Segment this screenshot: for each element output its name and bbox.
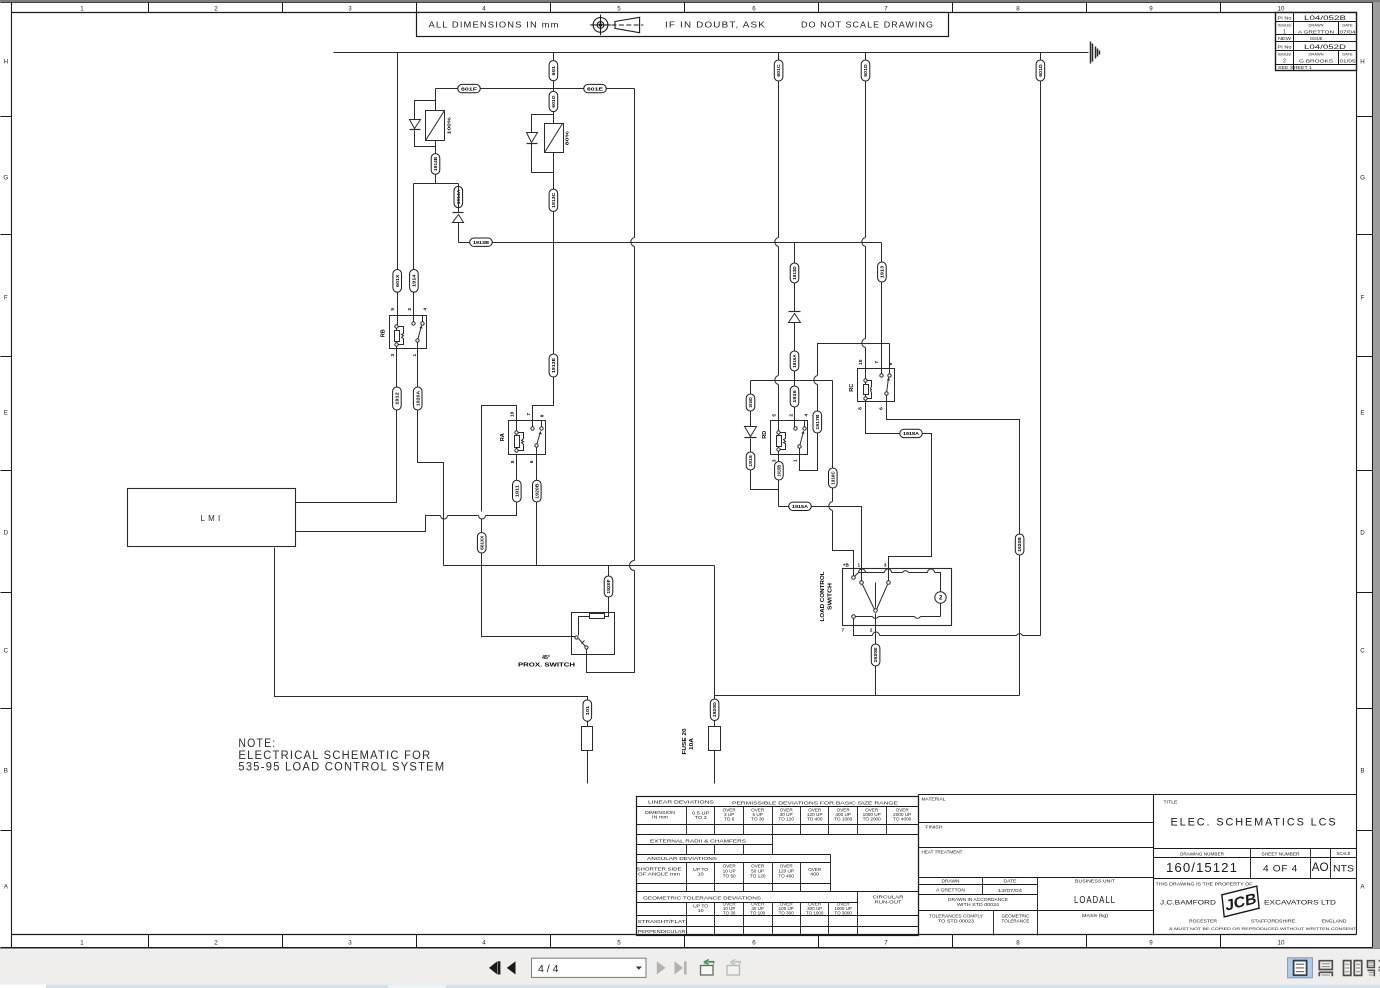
svg-text:400: 400 [810, 872, 820, 877]
wire hop: pin7 line over 1920E [873, 632, 880, 636]
wire hop: 1916C over 1915A [829, 502, 833, 511]
wire: 1920 ground bus (left) [444, 565, 715, 567]
svg-text:2: 2 [870, 627, 873, 632]
svg-text:TO 1000: TO 1000 [806, 910, 824, 915]
svg-text:TO 4000: TO 4000 [893, 817, 912, 822]
svg-text:TO 6: TO 6 [724, 817, 735, 822]
svg-text:07/04: 07/04 [1340, 30, 1357, 35]
svg-text:DATE: DATE [1342, 23, 1353, 28]
relay RA changeover contact [541, 421, 543, 429]
svg-text:1912: 1912 [395, 392, 400, 405]
node 1918A [900, 429, 923, 437]
node 601G [549, 91, 558, 111]
svg-text:8: 8 [1016, 5, 1020, 12]
svg-text:1916A: 1916A [792, 354, 797, 368]
svg-text:GEOMETRIC TOLERANCE DEVIATIONS: GEOMETRIC TOLERANCE DEVIATIONS [643, 896, 761, 901]
svg-text:E: E [4, 409, 8, 416]
svg-text:1920B: 1920B [534, 483, 539, 499]
svg-text:9: 9 [888, 362, 894, 365]
node 1913B [470, 238, 493, 246]
svg-text:1913: 1913 [880, 265, 885, 278]
svg-text:D: D [4, 529, 9, 536]
svg-text:& MUST NOT BE COPIED OR REPROD: & MUST NOT BE COPIED OR REPRODUCED WITHO… [1169, 926, 1357, 931]
wire hop: 601E over 1913B [631, 238, 635, 247]
box: load control switch [843, 569, 952, 626]
svg-text:1: 1 [858, 562, 861, 567]
wire hop: pin7 line over 1920B [1017, 634, 1023, 636]
svg-text:H: H [4, 58, 8, 65]
svg-text:G: G [1360, 174, 1365, 181]
svg-text:TO 2000: TO 2000 [863, 817, 882, 822]
fuse F20 [709, 727, 721, 751]
svg-text:535-95 LOAD CONTROL SYSTEM: 535-95 LOAD CONTROL SYSTEM [238, 760, 445, 774]
svg-text:10: 10 [698, 872, 705, 877]
svg-text:5: 5 [390, 308, 396, 311]
svg-text:SEE SHEET 1: SEE SHEET 1 [1278, 65, 1313, 70]
svg-text:3: 3 [390, 354, 396, 357]
node 601D [1036, 60, 1045, 81]
svg-text:7: 7 [884, 940, 888, 947]
svg-text:2: 2 [214, 940, 218, 947]
svg-text:PERPENDICULAR: PERPENDICULAR [638, 929, 686, 934]
svg-text:9: 9 [539, 414, 545, 417]
wire: 1914A branch through diode to 1913B [458, 184, 460, 243]
svg-text:TITLE: TITLE [1164, 799, 1178, 804]
wire hop: 601C over 1916 net [775, 376, 779, 385]
svg-text:TO 120: TO 120 [778, 817, 794, 822]
wire: 1916C branch to load control switch pin +B [833, 381, 854, 578]
wire: 1916 to relay RD pin 2 [794, 381, 796, 429]
node 601F [458, 84, 481, 92]
svg-text:RA: RA [500, 433, 506, 441]
wire hop: 1917B over 1916 net [814, 376, 818, 385]
wire hop: 601D over 1917B link [862, 339, 866, 348]
relay RB coil [396, 327, 398, 345]
svg-text:HEAT TREATMENT: HEAT TREATMENT [922, 849, 963, 854]
svg-text:TO STD 00023: TO STD 00023 [938, 919, 975, 924]
box: 45 deg prox switch [572, 613, 615, 655]
svg-text:4: 4 [803, 414, 809, 417]
svg-text:601XX: 601XX [479, 535, 484, 550]
wire: 1913E from 1913B junction down to relay RA pin 7 [533, 243, 554, 429]
node 1911 [513, 480, 522, 502]
relay RD coil [778, 433, 780, 450]
svg-text:B: B [4, 767, 8, 774]
svg-text:10: 10 [698, 908, 705, 913]
svg-text:2: 2 [407, 308, 413, 311]
svg-text:LOADALL: LOADALL [1074, 895, 1116, 906]
prox switch contacts [579, 617, 590, 636]
svg-text:101: 101 [585, 705, 590, 715]
svg-text:LOAD CONTROL: LOAD CONTROL [820, 571, 826, 622]
wire: power bus 601 (top horizontal) [334, 52, 1089, 54]
svg-text:SWITCH: SWITCH [828, 583, 834, 610]
diode D1 (across 100% coil) [410, 120, 421, 129]
wire: 1920B branch RC pin 6 to 1920 bus [887, 396, 1020, 696]
wire hop: 601C over 1913B [775, 238, 779, 247]
svg-text:601X: 601X [395, 274, 400, 287]
svg-text:4: 4 [422, 308, 428, 311]
svg-text:DRAWING NUMBER: DRAWING NUMBER [1180, 852, 1224, 857]
node 1913D [790, 263, 799, 283]
svg-text:D: D [1360, 529, 1365, 536]
svg-text:1913E: 1913E [551, 358, 556, 373]
svg-text:TOLERANCE: TOLERANCE [1002, 919, 1030, 924]
relay RD body [771, 421, 808, 455]
svg-text:5: 5 [617, 5, 621, 12]
svg-text:PI No: PI No [1278, 44, 1293, 49]
svg-text:G: G [3, 174, 8, 181]
node 1916D [746, 394, 755, 411]
svg-text:7: 7 [842, 627, 845, 632]
svg-text:10A: 10A [689, 738, 695, 750]
svg-text:TO 3000: TO 3000 [834, 910, 852, 915]
svg-text:WITH STD 00024: WITH STD 00024 [957, 902, 1000, 907]
svg-text:TO 300: TO 300 [779, 910, 795, 915]
wire: 1916 net horizontal [751, 380, 833, 382]
svg-text:ALL DIMENSIONS IN mm: ALL DIMENSIONS IN mm [429, 20, 560, 30]
svg-text:10: 10 [858, 359, 864, 365]
svg-text:6: 6 [879, 407, 885, 410]
svg-text:601D: 601D [1038, 64, 1043, 77]
svg-text:DRAWN: DRAWN [942, 879, 960, 884]
svg-text:1914B: 1914B [433, 156, 438, 171]
svg-text:601D: 601D [863, 64, 868, 77]
svg-text:RD: RD [762, 430, 768, 438]
svg-text:1911: 1911 [514, 484, 519, 497]
wire: load control switch pin 7 to 601D [854, 619, 1041, 636]
relay RA coil [516, 433, 518, 451]
node 1915A [789, 502, 812, 510]
node 1913 [878, 262, 887, 282]
wire: 1911 from RA pin 8 to LMI [296, 455, 517, 532]
wire: 601D from bus to relay RC pin 10 [865, 53, 867, 381]
svg-text:MASS (kg): MASS (kg) [1082, 913, 1109, 918]
node 1920B [533, 480, 542, 502]
svg-text:G BROOKS: G BROOKS [1299, 59, 1333, 64]
svg-text:100%: 100% [447, 116, 453, 134]
node 1912 [393, 387, 402, 410]
diode D5 (1916D to 1915) [745, 427, 757, 437]
relay RC body [858, 369, 895, 402]
svg-text:7: 7 [526, 413, 532, 416]
svg-text:7: 7 [874, 361, 880, 364]
wire: 1916D branch with diode to 1915 [751, 381, 779, 490]
svg-text:DRAWN: DRAWN [1309, 23, 1324, 28]
svg-text:1915B: 1915B [777, 464, 782, 477]
node 1920D [710, 699, 719, 721]
svg-text:2: 2 [214, 5, 218, 12]
svg-text:3: 3 [348, 5, 352, 12]
svg-text:DATE: DATE [1342, 52, 1353, 57]
relay RD changeover contact [804, 421, 806, 429]
wire: prox switch bottom contact to 601E [586, 650, 588, 655]
node 1915B [775, 462, 784, 481]
svg-text:9: 9 [1149, 5, 1153, 12]
wire: 1920D drop from bus through fuse 20 [714, 566, 716, 784]
svg-text:DATE: DATE [1004, 879, 1017, 884]
svg-text:SHEET NUMBER: SHEET NUMBER [1262, 852, 1300, 857]
wire: 1913 from 1913B corner down to relay RC pin 7 [881, 243, 883, 376]
svg-text:1918A: 1918A [903, 431, 920, 436]
wire: 601F/601E horizontal [436, 88, 635, 90]
svg-text:TO 400: TO 400 [778, 874, 794, 879]
svg-text:F: F [1361, 294, 1365, 301]
load control switch wire pin3 [888, 569, 890, 583]
svg-text:A GRETTON: A GRETTON [1298, 30, 1334, 35]
diode D3 (across 80% coil) [527, 133, 538, 143]
svg-text:TO 3: TO 3 [695, 815, 708, 820]
relay coil K1 100% (with flyback diode) [415, 89, 436, 184]
svg-text:1920D: 1920D [712, 702, 717, 718]
svg-text:+B: +B [843, 562, 850, 567]
svg-text:ISSUE: ISSUE [1278, 52, 1292, 57]
svg-text:2: 2 [789, 414, 795, 417]
wire: 1913D branch from 1913B through diode to 1916 net [794, 243, 796, 381]
wire: 1920A from RB pin 1 to 1920 bus [418, 343, 444, 566]
svg-text:160/15121: 160/15121 [1166, 861, 1238, 875]
svg-text:2: 2 [1283, 59, 1286, 65]
diode D4 (1913D to 1916A) [789, 311, 801, 313]
relay RA body [509, 421, 546, 455]
svg-text:TO 50: TO 50 [723, 874, 737, 879]
wire: LMI sense line down to fuse 101 [275, 548, 588, 784]
svg-text:1920B: 1920B [1017, 537, 1022, 552]
svg-text:1916C: 1916C [830, 471, 835, 485]
svg-text:6: 6 [752, 940, 756, 947]
relay RC changeover contact [889, 369, 891, 376]
svg-text:1: 1 [80, 940, 84, 947]
fuse F101 [582, 727, 593, 751]
svg-text:TO 30: TO 30 [723, 910, 736, 915]
node 1914B [431, 154, 440, 175]
node 1914 [410, 270, 419, 293]
wire: 1920E from load control switch pin 2 [875, 614, 877, 696]
svg-text:1914: 1914 [412, 274, 417, 287]
node 601D [861, 60, 870, 81]
svg-text:ENGLAND: ENGLAND [1322, 919, 1348, 924]
wire hop: 1911 over prox feed [479, 516, 486, 520]
relay coil K2 80% (with flyback diode) [532, 115, 554, 243]
svg-text:6: 6 [752, 5, 756, 12]
svg-text:AO: AO [1312, 862, 1329, 874]
load control switch selector contacts [863, 583, 888, 610]
svg-text:8: 8 [510, 460, 516, 463]
load control switch contact circles [852, 576, 856, 580]
svg-text:4 / 4: 4 / 4 [538, 963, 559, 975]
svg-text:7: 7 [884, 5, 888, 12]
svg-text:PROX. SWITCH: PROX. SWITCH [518, 662, 575, 668]
wire: 1915B / 1915A from RD pin 3 to load control switch pin 1 [779, 450, 862, 583]
node 1914A [454, 186, 463, 207]
svg-text:4: 4 [482, 5, 486, 12]
wire: 1913B horizontal [459, 242, 882, 244]
lamp 2 inside load control switch [935, 592, 946, 603]
svg-text:6: 6 [529, 460, 535, 463]
svg-text:1915: 1915 [748, 455, 753, 467]
svg-text:PI No: PI No [1278, 15, 1293, 20]
svg-text:IN mm: IN mm [652, 815, 669, 820]
svg-text:8: 8 [858, 407, 864, 410]
svg-text:601: 601 [551, 65, 556, 75]
node 601C [774, 60, 783, 81]
svg-text:NEW: NEW [1278, 36, 1291, 41]
svg-text:1917B: 1917B [815, 414, 820, 430]
svg-text:1: 1 [412, 354, 418, 357]
svg-text:3: 3 [348, 940, 352, 947]
svg-text:3: 3 [884, 562, 887, 567]
node 1916 [790, 386, 799, 407]
svg-text:TO 400: TO 400 [807, 817, 823, 822]
relay RC coil [865, 381, 867, 399]
node 1920E [871, 644, 880, 666]
svg-text:TO 30: TO 30 [751, 817, 765, 822]
svg-text:601C: 601C [776, 64, 781, 77]
svg-text:1916D: 1916D [748, 397, 753, 408]
svg-text:1915A: 1915A [792, 504, 809, 509]
svg-text:EXCAVATORS LTD: EXCAVATORS LTD [1264, 900, 1336, 907]
svg-text:H: H [1360, 58, 1364, 65]
svg-text:1920A: 1920A [415, 390, 420, 406]
wire: 1920 ground bus (right) [715, 695, 1020, 697]
svg-text:10: 10 [1278, 5, 1285, 12]
svg-text:1913C: 1913C [551, 192, 556, 208]
diode D2 (1914A to 1913B) [453, 212, 464, 214]
svg-text:ROCESTER: ROCESTER [1189, 919, 1218, 924]
svg-text:1916: 1916 [792, 390, 797, 403]
svg-text:SCALE: SCALE [1337, 851, 1351, 856]
svg-text:1920F: 1920F [606, 579, 611, 594]
svg-text:THIS DRAWING IS THE PROPERTY O: THIS DRAWING IS THE PROPERTY OF [1156, 882, 1254, 887]
svg-text:1913D: 1913D [792, 266, 797, 280]
node 1916C [829, 468, 838, 488]
svg-text:RC: RC [849, 383, 855, 391]
svg-text:13/07/04: 13/07/04 [998, 888, 1023, 893]
svg-text:EXTERNAL RADII & CHAMFERS: EXTERNAL RADII & CHAMFERS [650, 838, 746, 843]
svg-text:LMI: LMI [201, 514, 224, 523]
svg-text:4: 4 [482, 940, 486, 947]
svg-text:FINISH: FINISH [926, 825, 943, 830]
svg-text:J.C.BAMFORD: J.C.BAMFORD [1160, 900, 1216, 907]
svg-text:TO 1000: TO 1000 [834, 817, 853, 822]
load control switch wire pin1 [861, 569, 863, 583]
svg-text:C: C [4, 647, 9, 654]
svg-text:10: 10 [1278, 940, 1285, 947]
wire: 1914 tee to RB pin 2 and to diode branch [414, 184, 459, 324]
svg-text:3: 3 [772, 459, 778, 462]
svg-text:601E: 601E [587, 86, 603, 91]
ground: chassis earth at end of bus 601 [1090, 42, 1092, 64]
coil box 80% [545, 124, 564, 153]
svg-text:1920E: 1920E [873, 647, 878, 662]
svg-text:5: 5 [772, 414, 778, 417]
wire: 1918A link RC pin 8 to load control switch pin 3 [866, 400, 932, 569]
wire: 601/601G vertical from bus to 80% coil [553, 53, 555, 124]
svg-text:RUN-OUT: RUN-OUT [875, 899, 903, 904]
svg-text:8: 8 [1016, 940, 1020, 947]
node 1915 [746, 452, 755, 470]
svg-text:BUSINESS UNIT: BUSINESS UNIT [1075, 878, 1116, 883]
svg-text:LINEAR DEVIATIONS: LINEAR DEVIATIONS [648, 799, 714, 804]
svg-text:OF ANGLE mm: OF ANGLE mm [638, 871, 681, 876]
svg-text:MATERIAL: MATERIAL [922, 797, 947, 802]
svg-text:9: 9 [1149, 940, 1153, 947]
svg-text:45°: 45° [542, 655, 550, 661]
node 1913E [549, 354, 558, 377]
svg-text:TO 120: TO 120 [750, 874, 766, 879]
svg-text:ANGULAR DEVIATIONS: ANGULAR DEVIATIONS [647, 856, 717, 861]
wire: 601E vertical feed to prox switch [587, 89, 635, 673]
svg-text:1913B: 1913B [473, 240, 490, 245]
wire: 1917B link RD pin 1 to RC pin 9 [800, 344, 890, 471]
svg-text:1: 1 [792, 459, 798, 462]
wire: 601C from bus to relay RD pin 5 [778, 53, 780, 433]
svg-text:ELEC. SCHEMATICS LCS: ELEC. SCHEMATICS LCS [1171, 816, 1338, 828]
svg-text:1: 1 [80, 5, 84, 12]
resistor inside prox switch [605, 613, 609, 617]
wire: 601X from bus to relay RB pin 5 [397, 53, 399, 327]
svg-text:601G: 601G [551, 95, 556, 108]
wire: 601D (right) from bus to load control switch pin 7 line [1040, 53, 1042, 636]
node 1917B [813, 411, 822, 433]
wire hop: 601E over 1920 bus [630, 561, 635, 571]
svg-text:L04/052B: L04/052B [1304, 15, 1347, 22]
node 1920B [1015, 534, 1024, 555]
wire: 1920B from RA pin 6 to 1920 bus [536, 448, 538, 566]
svg-text:L04/052D: L04/052D [1304, 44, 1346, 51]
relay RB changeover contact [422, 316, 424, 324]
svg-text:F: F [4, 294, 8, 301]
node 1916A [790, 351, 799, 371]
wire: RA pin 10 to prox switch [482, 406, 576, 637]
svg-text:A GRETTON: A GRETTON [936, 888, 965, 893]
box: LMI unit [128, 489, 296, 547]
svg-text:DRAWN: DRAWN [1309, 52, 1324, 57]
svg-text:B: B [1360, 767, 1364, 774]
svg-text:STAFFORDSHIRE: STAFFORDSHIRE [1251, 919, 1295, 924]
svg-text:C: C [1360, 647, 1365, 654]
wire hop: 1911 over 1920A drop [441, 516, 448, 520]
svg-text:PERMISSIBLE DEVIATIONS FOR BAS: PERMISSIBLE DEVIATIONS FOR BASIC SIZE RA… [732, 800, 898, 805]
coil box 100% [426, 111, 445, 141]
wire hop: 601D over 1913B [862, 238, 866, 247]
node 1913C [549, 189, 558, 211]
svg-text:10: 10 [510, 411, 516, 417]
svg-text:STRAIGHT/FLAT: STRAIGHT/FLAT [638, 919, 687, 924]
svg-text:TO 100: TO 100 [750, 910, 766, 915]
load control switch internal bus (bottom) [856, 603, 941, 617]
wire: 1920F prox switch to 1920 bus [608, 566, 610, 617]
node 1920A [413, 387, 422, 410]
svg-text:ISSUE: ISSUE [1310, 36, 1323, 41]
relay RB body [390, 316, 427, 349]
svg-text:RB: RB [381, 329, 387, 337]
node 601X [393, 270, 402, 293]
svg-text:80%: 80% [564, 130, 570, 145]
node 1920F [604, 576, 613, 597]
svg-text:4 OF 4: 4 OF 4 [1263, 864, 1298, 874]
wire: 1912 from RB pin 3 to LMI [296, 347, 397, 503]
node 101 [583, 700, 592, 721]
node 601XX [477, 533, 486, 554]
svg-text:FUSE 20: FUSE 20 [682, 728, 688, 754]
svg-text:DO NOT SCALE DRAWING: DO NOT SCALE DRAWING [801, 20, 934, 30]
load control switch internal bus (top) [854, 573, 941, 592]
svg-text:IF IN DOUBT, ASK: IF IN DOUBT, ASK [665, 20, 766, 30]
svg-text:ISSUE: ISSUE [1278, 23, 1292, 28]
node 601E [584, 84, 607, 92]
svg-text:NTS: NTS [1333, 864, 1354, 874]
